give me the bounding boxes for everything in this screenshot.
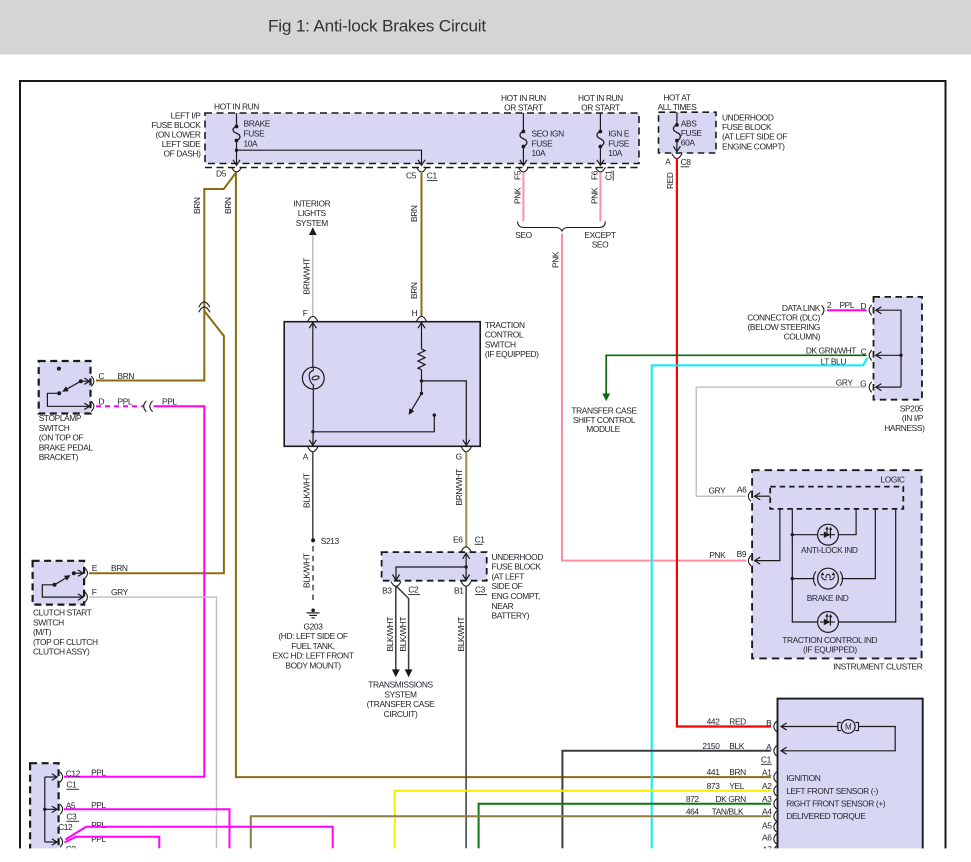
svg-text:LEFT I/P: LEFT I/P bbox=[171, 111, 202, 121]
wire PPL DLC to SP205 D bbox=[827, 309, 867, 311]
label PNK rotated (F6) bbox=[590, 187, 600, 204]
wire BRN C5 to H bbox=[421, 173, 423, 317]
label INSTRUMENT CLUSTER bbox=[833, 662, 923, 672]
wire BLK/WHT dashed S213 to ground bbox=[312, 546, 314, 604]
terminal A6 arc (ABS) bbox=[774, 834, 777, 844]
svg-text:OR START: OR START bbox=[504, 102, 543, 112]
svg-text:M: M bbox=[845, 723, 852, 732]
pin A6 entry arrow bbox=[755, 493, 771, 500]
svg-text:GRY: GRY bbox=[708, 485, 726, 495]
svg-text:EXC HD: LEFT FRONT: EXC HD: LEFT FRONT bbox=[273, 651, 354, 661]
wire resistor to junction bbox=[420, 370, 423, 383]
bottom clip mask bbox=[0, 848, 971, 862]
cluster left bus bbox=[791, 509, 818, 622]
svg-text:FUSE: FUSE bbox=[532, 138, 554, 148]
splice block SP205 box bbox=[874, 297, 923, 400]
svg-text:LIGHTS: LIGHTS bbox=[298, 208, 327, 218]
connector box (bottom left) bbox=[30, 763, 58, 853]
terminal A7 arc (ABS) bbox=[774, 846, 777, 856]
svg-text:2150: 2150 bbox=[702, 741, 720, 751]
label HOT IN RUN (brake fuse) bbox=[214, 102, 259, 112]
svg-text:BRN: BRN bbox=[192, 197, 202, 214]
label TRACTION CONTROL IND (IF EQUIPPED) bbox=[782, 635, 877, 654]
label BLK/WHT rotated (B1 wire) bbox=[456, 617, 466, 652]
label C5 C1 bbox=[406, 171, 437, 181]
stoplamp switch box bbox=[39, 361, 91, 414]
terminal B9 arc bbox=[748, 555, 751, 565]
label A bbox=[303, 452, 309, 462]
wire LT BLU down bbox=[652, 358, 868, 849]
svg-text:BRAKE IND: BRAKE IND bbox=[807, 593, 849, 603]
terminal C arc (SP205) bbox=[869, 350, 872, 360]
svg-text:BRAKE: BRAKE bbox=[244, 118, 271, 128]
svg-text:A1: A1 bbox=[762, 767, 772, 777]
terminal G arc bbox=[461, 447, 471, 452]
wire BRN/WHT interior lights to F bbox=[312, 235, 314, 317]
wire PNK from F5 bbox=[522, 173, 524, 221]
svg-text:INTERIOR: INTERIOR bbox=[293, 199, 330, 209]
wire DK GRN/WHT to transfer case module bbox=[606, 355, 866, 394]
svg-text:BATTERY): BATTERY) bbox=[492, 611, 530, 621]
TRACTION CONTROL IND lamp bbox=[818, 612, 839, 633]
label B bbox=[766, 718, 772, 728]
fuse ABS FUSE 60A symbol bbox=[673, 112, 680, 152]
terminal A6 arc bbox=[748, 491, 751, 501]
svg-text:GRY: GRY bbox=[111, 587, 129, 597]
svg-text:A6: A6 bbox=[737, 485, 747, 495]
wire PNK from F6 bbox=[599, 173, 601, 221]
svg-text:FUSE BLOCK: FUSE BLOCK bbox=[151, 120, 201, 130]
svg-text:A: A bbox=[303, 452, 309, 462]
svg-text:GRY: GRY bbox=[836, 378, 854, 388]
label A7 (ABS) bbox=[762, 845, 772, 855]
svg-text:C2: C2 bbox=[408, 585, 419, 595]
label D PPL bbox=[99, 396, 133, 406]
inline connector on PPL wire bbox=[144, 401, 153, 412]
svg-text:YEL: YEL bbox=[729, 781, 744, 791]
label A2 bbox=[762, 781, 772, 791]
svg-text:A2: A2 bbox=[762, 781, 772, 791]
label DK GRN/WHT C bbox=[806, 346, 867, 357]
label HOT IN RUN OR START (SEO IGN) bbox=[501, 93, 546, 112]
svg-text:BRN: BRN bbox=[118, 371, 135, 381]
svg-text:RED: RED bbox=[665, 172, 675, 189]
label G203 location bbox=[273, 621, 354, 670]
arrow to transfer case module bbox=[602, 394, 610, 402]
terminal B1 arc bbox=[461, 582, 471, 587]
label F GRY bbox=[92, 587, 129, 597]
wire PPL A5 down bbox=[64, 809, 230, 848]
label A C8 bbox=[665, 157, 691, 167]
svg-text:BLK: BLK bbox=[729, 741, 744, 751]
label LT BLU bbox=[821, 356, 847, 366]
svg-text:D: D bbox=[99, 396, 105, 406]
label F5 rotated bbox=[513, 170, 523, 180]
svg-text:BLK/WHT: BLK/WHT bbox=[301, 473, 311, 508]
pin F entry arrow bbox=[309, 323, 316, 368]
terminal G arc (SP205) bbox=[869, 382, 872, 392]
terminal D5 arc bbox=[232, 167, 242, 172]
terminal A2 arc (ABS) bbox=[774, 786, 777, 796]
svg-text:F: F bbox=[92, 587, 97, 597]
svg-text:C1: C1 bbox=[427, 171, 438, 181]
wire PPL solid D to C12 bbox=[64, 406, 204, 777]
terminal A arc bbox=[308, 447, 318, 452]
svg-text:CONNECTOR (DLC): CONNECTOR (DLC) bbox=[747, 313, 820, 323]
svg-text:LEFT FRONT SENSOR (-): LEFT FRONT SENSOR (-) bbox=[786, 786, 878, 796]
svg-text:BRN: BRN bbox=[111, 563, 128, 573]
clutch switch E contact bbox=[72, 570, 83, 576]
terminal A arc (ABS) bbox=[774, 746, 777, 756]
wire BRN D5 branch diagonal to x204 bbox=[96, 173, 236, 381]
svg-text:DELIVERED TORQUE: DELIVERED TORQUE bbox=[786, 811, 866, 821]
TRACTION CONTROL IND right wire bbox=[838, 509, 895, 622]
svg-text:DATA LINK: DATA LINK bbox=[782, 303, 821, 313]
svg-text:SEO: SEO bbox=[592, 239, 609, 249]
label C1 rotated at F6 bbox=[604, 170, 614, 181]
label 873 YEL bbox=[707, 781, 745, 791]
label PNK rotated (center) bbox=[551, 251, 561, 268]
label C12 C1 PPL bbox=[66, 768, 107, 790]
terminal C12 arc (lower) bbox=[60, 837, 63, 847]
label BRN/WHT rotated (F wire) bbox=[302, 258, 312, 295]
svg-text:C8: C8 bbox=[681, 157, 692, 167]
svg-text:2: 2 bbox=[827, 300, 832, 310]
fuse block bottom connector dashed line bbox=[205, 167, 639, 169]
svg-text:INSTRUMENT CLUSTER: INSTRUMENT CLUSTER bbox=[833, 662, 923, 672]
fuse block: UNDERHOOD ABS (dashed box) bbox=[659, 112, 717, 153]
label PNK B9 bbox=[709, 549, 747, 560]
svg-text:UNDERHOOD: UNDERHOOD bbox=[722, 112, 774, 122]
svg-text:CLUTCH START: CLUTCH START bbox=[33, 608, 92, 618]
svg-text:(IF EQUIPPED): (IF EQUIPPED) bbox=[803, 644, 857, 654]
svg-text:E6: E6 bbox=[453, 534, 463, 544]
ANTI-LOCK IND right wire bbox=[838, 509, 856, 535]
svg-text:SEO IGN: SEO IGN bbox=[532, 129, 565, 139]
terminal B arc (ABS) bbox=[774, 721, 777, 731]
terminal A1 arc (ABS) bbox=[774, 772, 777, 782]
label STOPLAMP SWITCH location bbox=[39, 413, 94, 462]
svg-text:CONTROL: CONTROL bbox=[485, 330, 524, 340]
svg-text:PPL: PPL bbox=[91, 768, 106, 778]
label A3 bbox=[762, 794, 772, 804]
terminal E arc (clutch) bbox=[85, 568, 88, 578]
label D5 bbox=[216, 169, 227, 179]
svg-text:SWITCH: SWITCH bbox=[485, 339, 516, 349]
fuse block: LEFT I/P FUSE BLOCK (dashed box) bbox=[205, 113, 639, 164]
svg-text:FUSE: FUSE bbox=[608, 138, 630, 148]
svg-text:B3: B3 bbox=[382, 585, 392, 595]
svg-text:(ON TOP OF: (ON TOP OF bbox=[39, 433, 84, 443]
svg-text:BRACKET): BRACKET) bbox=[39, 452, 79, 462]
svg-text:FUSE: FUSE bbox=[681, 128, 703, 138]
label ABS module pin functions bbox=[786, 773, 886, 821]
svg-text:F5: F5 bbox=[513, 170, 523, 180]
wire PPL C12 lower (1) bbox=[66, 827, 333, 849]
svg-text:60A: 60A bbox=[681, 138, 696, 148]
svg-text:PNK: PNK bbox=[551, 251, 561, 268]
BRAKE IND lamp bbox=[813, 568, 842, 589]
svg-text:FUSE: FUSE bbox=[244, 128, 266, 138]
svg-text:E: E bbox=[92, 563, 98, 573]
svg-text:B: B bbox=[766, 718, 772, 728]
label GRY G bbox=[836, 378, 867, 389]
label TRANSMISSIONS SYSTEM bbox=[367, 680, 436, 719]
wire DK GRN A3 down bbox=[479, 804, 771, 849]
svg-text:442: 442 bbox=[707, 717, 721, 727]
svg-text:COLUMN): COLUMN) bbox=[784, 332, 821, 342]
svg-text:DK GRN/WHT: DK GRN/WHT bbox=[806, 346, 856, 356]
DLC terminal arc bbox=[822, 305, 824, 315]
label PNK rotated (F5) bbox=[513, 187, 523, 204]
svg-text:A4: A4 bbox=[762, 807, 772, 817]
terminal F5 arc bbox=[518, 167, 528, 172]
svg-text:PPL: PPL bbox=[118, 396, 133, 406]
svg-text:CIRCUIT): CIRCUIT) bbox=[384, 709, 418, 719]
terminal C12 arc bbox=[60, 772, 63, 782]
lamp symbol (traction switch) bbox=[302, 367, 324, 389]
svg-text:(AT LEFT SIDE OF: (AT LEFT SIDE OF bbox=[722, 132, 787, 142]
terminal B3 arc bbox=[391, 582, 401, 587]
svg-text:BRN/WHT: BRN/WHT bbox=[454, 469, 464, 506]
ANTI-LOCK IND lamp bbox=[818, 524, 839, 545]
logic module inner box bbox=[770, 487, 903, 509]
svg-text:OF DASH): OF DASH) bbox=[164, 149, 202, 159]
svg-text:C12: C12 bbox=[66, 768, 81, 778]
label C BRN bbox=[99, 371, 135, 381]
label DATA LINK CONNECTOR (DLC) bbox=[747, 303, 821, 342]
label SP205 (IN I/P HARNESS) bbox=[884, 404, 925, 433]
label UNDERHOOD FUSE BLOCK (engine compt) bbox=[722, 112, 787, 151]
svg-text:SEO: SEO bbox=[515, 230, 532, 240]
svg-text:872: 872 bbox=[686, 794, 700, 804]
svg-text:464: 464 bbox=[686, 806, 700, 816]
label 464 TAN/BLK bbox=[686, 806, 744, 816]
svg-text:BLK/WHT: BLK/WHT bbox=[385, 617, 395, 652]
wire BRN D5 to 441/A1 (vertical x236) bbox=[236, 173, 771, 778]
terminal A5 arc bbox=[60, 804, 63, 814]
svg-text:ENGINE COMPT): ENGINE COMPT) bbox=[722, 141, 785, 151]
label BRN rotated (x236) bbox=[223, 197, 233, 214]
ground G203 symbol bbox=[307, 609, 320, 618]
underhood internal wiring bbox=[393, 553, 470, 580]
svg-text:B1: B1 bbox=[454, 585, 464, 595]
terminal E6 arc bbox=[461, 547, 471, 552]
svg-text:TRANSMISSIONS: TRANSMISSIONS bbox=[368, 680, 433, 690]
switch arm (traction) bbox=[406, 381, 423, 416]
terminal A5 arc (ABS) bbox=[774, 822, 777, 832]
svg-text:10A: 10A bbox=[244, 138, 259, 148]
terminal D arc (stoplamp) bbox=[91, 401, 94, 411]
svg-text:FUEL TANK,: FUEL TANK, bbox=[291, 641, 335, 651]
label 872 DK GRN bbox=[686, 794, 746, 804]
label A4 bbox=[762, 807, 772, 817]
traction control switch box bbox=[284, 322, 480, 447]
svg-text:C1: C1 bbox=[475, 534, 486, 544]
wire GRY clutch F down bbox=[89, 597, 217, 848]
svg-text:TAN/BLK: TAN/BLK bbox=[712, 806, 744, 816]
svg-text:BLK/WHT: BLK/WHT bbox=[398, 617, 408, 652]
svg-text:(TRANSFER CASE: (TRANSFER CASE bbox=[367, 699, 436, 709]
svg-text:FUSE BLOCK: FUSE BLOCK bbox=[492, 562, 542, 572]
label F6 rotated bbox=[590, 170, 600, 180]
label A5 (ABS) bbox=[762, 821, 772, 831]
svg-text:PPL: PPL bbox=[839, 300, 854, 310]
svg-text:BLK/WHT: BLK/WHT bbox=[301, 553, 311, 588]
svg-text:BODY MOUNT): BODY MOUNT) bbox=[285, 661, 341, 671]
stoplamp switch arm bbox=[61, 381, 81, 394]
wire BLK/WHT B1 down bbox=[465, 586, 467, 848]
label INTERIOR LIGHTS SYSTEM bbox=[293, 199, 330, 228]
fuse F1 BRAKE FUSE 10A symbol bbox=[233, 113, 240, 152]
label SEO bbox=[515, 230, 532, 240]
svg-text:BLK/WHT: BLK/WHT bbox=[456, 617, 466, 652]
label LEFT I/P FUSE BLOCK location bbox=[151, 111, 201, 159]
terminal H arc bbox=[417, 316, 427, 321]
terminal A4 arc (ABS) bbox=[774, 811, 777, 821]
svg-text:B9: B9 bbox=[737, 549, 747, 559]
svg-text:PPL: PPL bbox=[162, 396, 177, 406]
label BRAKE FUSE 10A bbox=[244, 118, 271, 148]
svg-text:BRN: BRN bbox=[223, 197, 233, 214]
svg-text:(BELOW STEERING: (BELOW STEERING bbox=[748, 322, 820, 332]
label C12 PPL PPL C2 bbox=[58, 820, 106, 854]
svg-text:G: G bbox=[456, 452, 462, 462]
label RED rotated bbox=[665, 172, 675, 189]
wire TAN/BLK A4 down bbox=[251, 816, 771, 848]
label LOGIC bbox=[880, 475, 904, 485]
svg-text:C3: C3 bbox=[475, 585, 486, 595]
fuse F5 SEO IGN FUSE 10A symbol bbox=[520, 113, 527, 165]
wire lamp to A junction bbox=[311, 386, 314, 434]
terminal A arc (ABS fuse) bbox=[672, 154, 682, 159]
BRAKE IND right wire bbox=[842, 509, 876, 579]
label TRACTION CONTROL SWITCH (IF EQUIPPED) bbox=[485, 320, 539, 359]
wire junction to G bbox=[422, 381, 470, 446]
svg-text:BRN: BRN bbox=[729, 767, 746, 777]
label B3 C2 bbox=[382, 585, 420, 596]
svg-text:HOT IN RUN: HOT IN RUN bbox=[214, 102, 259, 112]
svg-text:C3: C3 bbox=[66, 811, 77, 821]
svg-text:10A: 10A bbox=[608, 148, 623, 158]
svg-text:SWITCH: SWITCH bbox=[39, 423, 70, 433]
label H bbox=[412, 308, 418, 318]
terminal F arc bbox=[308, 316, 318, 321]
svg-text:C1: C1 bbox=[604, 170, 614, 181]
wire BLK/WHT B3 to transmissions (2) bbox=[396, 586, 412, 677]
svg-text:DK GRN: DK GRN bbox=[716, 794, 747, 804]
clutch switch pivot and F path bbox=[42, 583, 83, 601]
arrow to interior lights system bbox=[309, 227, 317, 235]
label TRANSFER CASE SHIFT CONTROL MODULE bbox=[571, 406, 637, 435]
svg-text:S213: S213 bbox=[321, 536, 340, 546]
terminal A3 arc (ABS) bbox=[774, 799, 777, 809]
svg-text:A: A bbox=[665, 157, 671, 167]
svg-text:BRN: BRN bbox=[409, 205, 419, 222]
svg-text:CLUTCH ASSY): CLUTCH ASSY) bbox=[33, 647, 90, 657]
svg-text:BRN: BRN bbox=[409, 282, 419, 299]
svg-text:441: 441 bbox=[707, 767, 721, 777]
svg-text:10A: 10A bbox=[532, 148, 547, 158]
svg-text:(IN I/P: (IN I/P bbox=[902, 413, 924, 423]
svg-text:C: C bbox=[99, 371, 105, 381]
label PPL (after connector) bbox=[162, 396, 177, 406]
svg-text:ANTI-LOCK IND: ANTI-LOCK IND bbox=[801, 545, 858, 555]
stoplamp switch pivot and D path bbox=[47, 391, 89, 409]
connector internal bus bbox=[43, 774, 57, 845]
label A C1 bbox=[761, 742, 772, 764]
svg-text:C1: C1 bbox=[761, 754, 772, 764]
svg-text:UNDERHOOD: UNDERHOOD bbox=[492, 552, 544, 562]
svg-text:H: H bbox=[412, 308, 418, 318]
terminal F6 arc bbox=[595, 167, 605, 172]
splice S213 bbox=[311, 538, 315, 542]
label BLK/WHT rotated (ground wire) bbox=[301, 553, 311, 588]
label 441 BRN bbox=[707, 767, 747, 777]
wire A junction to switch contact bbox=[313, 413, 436, 431]
svg-text:NEAR: NEAR bbox=[492, 601, 514, 611]
svg-text:(IF EQUIPPED): (IF EQUIPPED) bbox=[485, 349, 539, 359]
label UNDERHOOD FUSE BLOCK (battery) bbox=[492, 552, 544, 621]
svg-text:OR START: OR START bbox=[581, 102, 620, 112]
label F bbox=[303, 308, 308, 318]
svg-text:FUSE BLOCK: FUSE BLOCK bbox=[722, 122, 772, 132]
label A5 C3 PPL bbox=[66, 800, 107, 821]
svg-text:A5: A5 bbox=[762, 821, 772, 831]
svg-text:PNK: PNK bbox=[513, 187, 523, 204]
clutch switch arm bbox=[55, 573, 73, 585]
svg-text:BRAKE PEDAL: BRAKE PEDAL bbox=[39, 442, 94, 452]
svg-text:PNK: PNK bbox=[709, 550, 726, 560]
svg-text:G203: G203 bbox=[304, 621, 324, 631]
svg-text:A6: A6 bbox=[762, 833, 772, 843]
pin H entry arrow bbox=[418, 323, 425, 349]
wire PPL dashed from D bbox=[96, 405, 144, 407]
wire PNK brace to B9 bbox=[562, 234, 746, 561]
wire RED ABS fuse to pump motor B bbox=[677, 158, 771, 727]
terminal D arc (SP205) bbox=[869, 305, 872, 315]
title bar bbox=[0, 0, 971, 55]
motor circuit wiring bbox=[781, 723, 895, 754]
svg-text:A3: A3 bbox=[762, 794, 772, 804]
label BRN/WHT rotated (G wire) bbox=[454, 469, 464, 506]
underhood fuse block box (near battery) bbox=[382, 552, 487, 581]
svg-text:ABS: ABS bbox=[681, 118, 697, 128]
label A1 bbox=[762, 767, 772, 777]
svg-text:(HD: LEFT SIDE OF: (HD: LEFT SIDE OF bbox=[278, 631, 347, 641]
svg-text:RIGHT FRONT SENSOR (+): RIGHT FRONT SENSOR (+) bbox=[786, 798, 886, 808]
wire BRN splice branch to clutch switch E bbox=[89, 311, 224, 573]
label BLK/WHT rotated (transmission 1) bbox=[385, 617, 395, 652]
stoplamp switch contact dot (upper) bbox=[57, 367, 61, 371]
label E6 C1 bbox=[453, 534, 485, 544]
svg-text:C5: C5 bbox=[406, 171, 417, 181]
svg-text:SYSTEM: SYSTEM bbox=[384, 689, 417, 699]
svg-text:ALL TIMES: ALL TIMES bbox=[658, 102, 698, 112]
svg-text:ENG COMPT,: ENG COMPT, bbox=[492, 591, 540, 601]
label GRY A6 bbox=[708, 485, 747, 496]
svg-text:C1: C1 bbox=[66, 779, 77, 789]
wire fuse output to D5 bbox=[233, 150, 240, 165]
clutch start switch box bbox=[33, 561, 85, 605]
svg-text:HARNESS): HARNESS) bbox=[884, 423, 925, 433]
svg-text:PPL: PPL bbox=[91, 834, 106, 844]
label S213 bbox=[321, 536, 340, 546]
wire BLK/WHT B3 to transmissions (1) bbox=[392, 586, 400, 677]
label CLUTCH START SWITCH location bbox=[33, 608, 98, 657]
svg-text:(M/T): (M/T) bbox=[33, 627, 52, 637]
wire GRY SP205 to cluster A6 bbox=[696, 387, 866, 496]
